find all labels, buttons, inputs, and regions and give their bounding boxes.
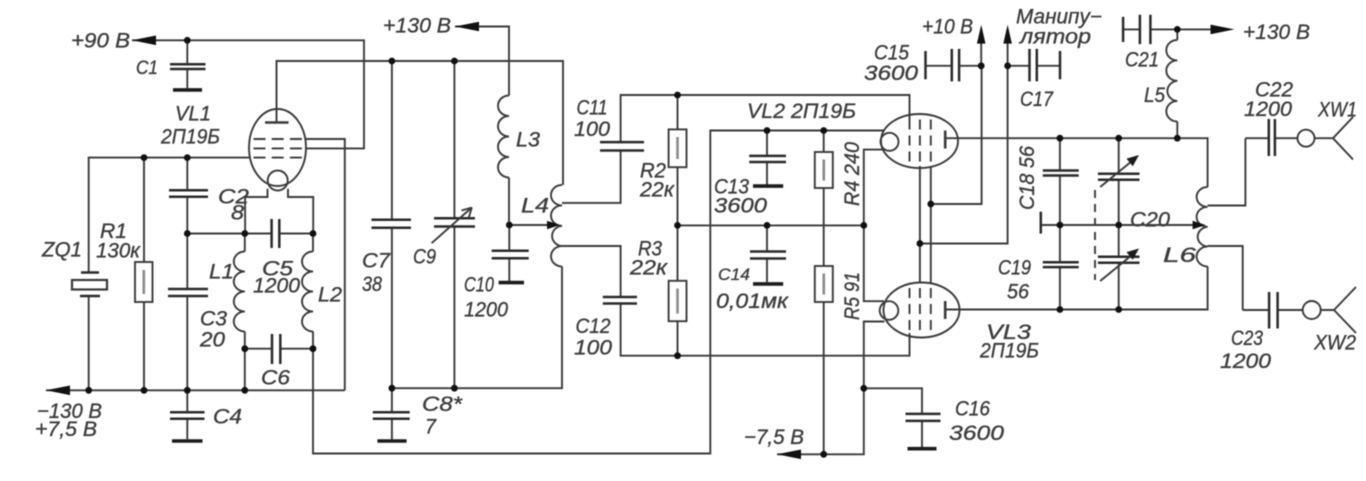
svg-text:0,01мк: 0,01мк xyxy=(716,290,789,313)
svg-text:−7,5 В: −7,5 В xyxy=(744,426,804,449)
svg-text:100: 100 xyxy=(574,337,612,360)
svg-text:+7,5 В: +7,5 В xyxy=(35,418,97,441)
svg-text:R4 240: R4 240 xyxy=(841,142,864,206)
svg-text:2П19Б: 2П19Б xyxy=(979,340,1039,363)
svg-text:C17: C17 xyxy=(1020,88,1054,111)
svg-text:L6: L6 xyxy=(1163,244,1196,267)
svg-text:C16: C16 xyxy=(955,398,990,421)
svg-text:лятор: лятор xyxy=(1019,26,1091,49)
svg-text:C21: C21 xyxy=(1125,49,1159,72)
svg-text:C14: C14 xyxy=(718,265,750,284)
svg-text:XW2: XW2 xyxy=(1313,332,1356,355)
svg-text:C11: C11 xyxy=(577,97,608,120)
svg-text:+130 В: +130 В xyxy=(383,15,451,38)
svg-text:L2: L2 xyxy=(318,284,342,307)
svg-text:1200: 1200 xyxy=(464,299,508,322)
svg-text:C7: C7 xyxy=(362,250,391,273)
svg-text:C12: C12 xyxy=(576,315,611,338)
svg-text:56: 56 xyxy=(1007,281,1029,304)
svg-text:C1: C1 xyxy=(136,58,158,79)
svg-text:3600: 3600 xyxy=(714,195,767,218)
svg-text:+10 В: +10 В xyxy=(922,16,973,39)
svg-text:C20: C20 xyxy=(1130,209,1170,232)
svg-text:38: 38 xyxy=(362,273,382,296)
svg-text:8: 8 xyxy=(231,202,244,225)
svg-text:1200: 1200 xyxy=(1220,350,1271,373)
svg-text:1200: 1200 xyxy=(253,275,300,298)
svg-text:C10: C10 xyxy=(464,274,494,297)
svg-text:L3: L3 xyxy=(516,129,540,152)
svg-text:ZQ1: ZQ1 xyxy=(41,239,82,262)
svg-text:1200: 1200 xyxy=(1244,98,1292,121)
svg-text:C3: C3 xyxy=(200,308,227,331)
svg-text:C23: C23 xyxy=(1231,327,1263,350)
svg-text:+90 В: +90 В xyxy=(71,30,130,53)
svg-text:L5: L5 xyxy=(1144,84,1165,107)
svg-text:7: 7 xyxy=(425,416,437,439)
svg-text:VL1: VL1 xyxy=(175,103,211,126)
svg-text:C9: C9 xyxy=(413,246,436,269)
svg-text:L1: L1 xyxy=(209,261,234,284)
svg-text:C8*: C8* xyxy=(422,393,463,416)
svg-text:100: 100 xyxy=(574,118,610,141)
svg-text:3600: 3600 xyxy=(864,62,918,85)
svg-text:XW1: XW1 xyxy=(1317,99,1357,122)
svg-text:130к: 130к xyxy=(96,240,141,263)
svg-text:22к: 22к xyxy=(629,257,668,280)
svg-text:R5 91: R5 91 xyxy=(841,272,864,320)
svg-text:+130 В: +130 В xyxy=(1243,21,1310,44)
svg-text:20: 20 xyxy=(199,329,225,352)
svg-text:3600: 3600 xyxy=(949,422,1004,445)
svg-text:C6: C6 xyxy=(261,367,290,390)
svg-text:C19: C19 xyxy=(998,257,1031,280)
svg-text:C4: C4 xyxy=(213,406,242,429)
svg-text:22к: 22к xyxy=(639,179,675,202)
svg-text:C18 56: C18 56 xyxy=(1016,146,1039,210)
svg-text:L4: L4 xyxy=(521,195,549,218)
svg-text:2П19Б: 2П19Б xyxy=(160,126,220,149)
svg-text:VL2 2П19Б: VL2 2П19Б xyxy=(747,100,856,123)
